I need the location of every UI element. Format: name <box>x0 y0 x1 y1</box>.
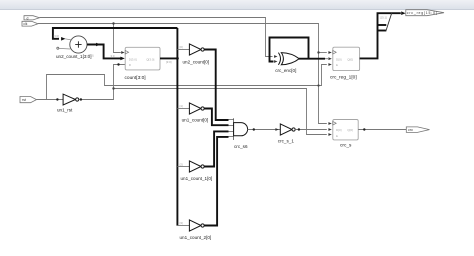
inverter crc_s_1 <box>278 124 295 144</box>
svg-text:clk: clk <box>23 22 27 26</box>
bus tap [3] <box>177 221 189 225</box>
svg-text:E: E <box>336 63 338 67</box>
AND gate crc_s6 <box>234 118 248 149</box>
wire net rst <box>37 63 332 101</box>
svg-text:crc_enc[0]: crc_enc[0] <box>275 68 296 73</box>
inverter un1_count_2[0] <box>180 220 212 240</box>
wire un1_count_2[0] out to AND in4 (thick) <box>204 137 233 226</box>
input port rst <box>20 97 37 103</box>
wire un2_count[0] out to AND in1 (thick) <box>204 50 233 121</box>
svg-text:crc_s: crc_s <box>340 143 352 149</box>
register crc_reg_1[0] <box>330 47 360 80</box>
wire count Q to bus (thick) <box>160 57 179 64</box>
input port d <box>24 16 40 21</box>
svg-text:3:0: 3:0 <box>111 54 115 58</box>
bus count[3:0] vertical (thick) <box>176 28 178 226</box>
svg-text:un2_count[0]: un2_count[0] <box>183 60 210 65</box>
svg-text:crc_reg_1[0]: crc_reg_1[0] <box>330 75 357 81</box>
svg-text:un2_count_1[3:0]: un2_count_1[3:0] <box>56 54 92 59</box>
inverter un2_count[0] <box>183 44 210 65</box>
svg-text:Q[3:0]: Q[3:0] <box>146 57 154 61</box>
svg-text:crc: crc <box>408 128 413 132</box>
wire net rst_n (un1_rst output) <box>79 63 332 136</box>
bus ripper crc_reg[15:0] <box>378 13 392 31</box>
xor gate crc_enc[0] <box>275 53 299 73</box>
bus count[3:0] feedback to adder (thick) <box>53 28 177 41</box>
output port crc <box>406 127 429 132</box>
bus tap [1] <box>177 104 189 108</box>
feedback loop crc_reg to xor in2 (thick) <box>270 38 309 63</box>
svg-text:D[0]: D[0] <box>336 57 342 61</box>
constant 1 input to adder <box>57 47 71 49</box>
inverter un1_count_1[0] <box>181 161 213 181</box>
register crc_s <box>333 120 358 149</box>
svg-text:D[3:0]: D[3:0] <box>129 57 137 61</box>
svg-text:crc_s6: crc_s6 <box>234 144 248 149</box>
wire crc_s Q to output port <box>358 128 406 130</box>
wire adder output to count D (thick) <box>87 43 125 61</box>
wire net d <box>40 18 278 58</box>
svg-text:[2]: [2] <box>180 162 183 166</box>
svg-text:Q[0]: Q[0] <box>347 128 353 132</box>
inverter un1_rst <box>57 94 79 112</box>
svg-text:Q[0]: Q[0] <box>347 57 353 61</box>
bus tap [2] <box>177 162 189 166</box>
inverter un1_count[0] <box>182 103 209 122</box>
svg-text:count[3:0]: count[3:0] <box>125 75 146 81</box>
wire crc_reg_1 Q to output port (thick) <box>360 11 406 58</box>
svg-text:un1_count_2[0]: un1_count_2[0] <box>180 235 212 240</box>
svg-text:[3:0]: [3:0] <box>88 54 94 58</box>
svg-text:E: E <box>336 134 338 138</box>
adder un2_count_1[3:0] <box>56 36 92 59</box>
bus tap [0] <box>177 45 189 49</box>
svg-text:un1_count[0]: un1_count[0] <box>182 117 209 122</box>
svg-text:[3:0]: [3:0] <box>54 34 60 38</box>
svg-text:rst: rst <box>22 98 26 102</box>
wire net clk <box>38 22 332 125</box>
wire un1_count[0] out to AND in2 (thick) <box>204 109 233 126</box>
wire crc_s6 out to crc_s_1 <box>248 128 281 131</box>
svg-text:un1_count_1[0]: un1_count_1[0] <box>181 176 213 181</box>
wire un1_count_1[0] out to AND in3 (thick) <box>204 131 233 166</box>
register count[3:0] <box>125 47 161 81</box>
svg-text:[1]: [1] <box>180 104 183 108</box>
input port clk <box>22 21 38 26</box>
svg-text:[3:0]: [3:0] <box>166 60 172 64</box>
svg-text:D[0]: D[0] <box>336 128 342 132</box>
svg-text:d: d <box>27 16 29 20</box>
toolbar strip <box>0 0 474 10</box>
svg-text:[15:1]: [15:1] <box>380 16 387 20</box>
svg-text:crc_reg[15:0]: crc_reg[15:0] <box>407 11 437 15</box>
wire crc_enc out to crc_reg_1 D (thick) <box>299 57 332 60</box>
output port crc_reg[15:0] <box>406 10 444 16</box>
svg-text:un1_rst: un1_rst <box>57 108 73 113</box>
svg-text:[0]: [0] <box>180 45 183 49</box>
svg-text:crc_s_1: crc_s_1 <box>278 139 295 144</box>
wire crc_s_1 out to crc_s D <box>295 128 332 131</box>
svg-text:[3]: [3] <box>180 221 183 225</box>
